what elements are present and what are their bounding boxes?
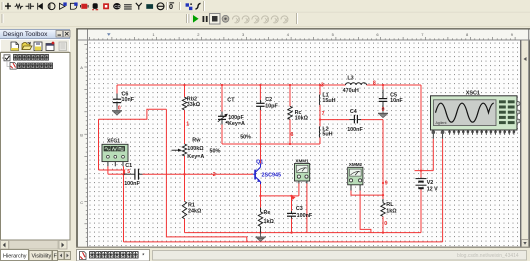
svg-text:50%: 50% <box>240 134 251 140</box>
svg-text:A: A <box>80 65 83 70</box>
svg-text:0: 0 <box>169 2 173 11</box>
svg-text:Hierarchy: Hierarchy <box>3 254 27 260</box>
svg-text:Key=A: Key=A <box>187 154 204 160</box>
svg-text:blog.csdn.net/weixin_43414: blog.csdn.net/weixin_43414 <box>457 253 519 259</box>
svg-text:Rw: Rw <box>192 138 201 144</box>
svg-text:5: 5 <box>127 169 130 175</box>
svg-text:RL: RL <box>386 202 394 208</box>
svg-text:0: 0 <box>118 106 121 112</box>
svg-text:CT: CT <box>227 98 235 104</box>
svg-text:3: 3 <box>321 82 324 88</box>
svg-text:10nF: 10nF <box>122 97 135 103</box>
svg-text:Agilent: Agilent <box>436 121 447 125</box>
svg-text:C3: C3 <box>296 206 303 212</box>
svg-text:10kΩ: 10kΩ <box>295 115 309 121</box>
svg-text:100nF: 100nF <box>297 213 313 219</box>
svg-text:100nF: 100nF <box>124 181 140 187</box>
svg-text:5uH: 5uH <box>322 131 332 137</box>
svg-text:6: 6 <box>291 132 294 138</box>
svg-text:100pF: 100pF <box>228 115 244 121</box>
svg-text:Re: Re <box>264 210 271 216</box>
svg-text:8: 8 <box>373 80 376 86</box>
svg-text:B: B <box>80 133 83 138</box>
svg-text:100kΩ: 100kΩ <box>187 146 204 152</box>
svg-text:7: 7 <box>322 111 325 117</box>
svg-text:*: * <box>141 254 146 260</box>
svg-text:C: C <box>80 200 83 205</box>
svg-text:Visibility: Visibility <box>32 254 52 260</box>
svg-text:50%: 50% <box>210 148 221 154</box>
svg-text:0: 0 <box>382 107 385 113</box>
svg-text:C4: C4 <box>350 109 357 115</box>
svg-text:24kΩ: 24kΩ <box>188 209 202 215</box>
svg-text:2: 2 <box>213 172 216 178</box>
svg-text:100nF: 100nF <box>347 127 363 133</box>
svg-text:L3: L3 <box>347 75 353 81</box>
svg-text:Q1: Q1 <box>256 159 263 165</box>
svg-text:XMM1: XMM1 <box>295 158 309 163</box>
svg-text:V2: V2 <box>427 180 434 186</box>
svg-text:15uH: 15uH <box>322 98 335 104</box>
svg-text:10pF: 10pF <box>265 103 278 109</box>
svg-text:XSC1: XSC1 <box>466 91 480 97</box>
svg-text:Key=A: Key=A <box>228 121 245 127</box>
svg-text:0: 0 <box>384 221 387 227</box>
svg-text:10nF: 10nF <box>390 98 403 104</box>
svg-text:C2: C2 <box>265 97 272 103</box>
svg-text:XFG1: XFG1 <box>107 138 120 144</box>
svg-text:1kΩ: 1kΩ <box>264 219 275 225</box>
svg-text:470uH: 470uH <box>343 88 359 94</box>
svg-text:1kΩ: 1kΩ <box>386 209 397 215</box>
svg-text:33kΩ: 33kΩ <box>187 102 201 108</box>
svg-text:9: 9 <box>385 180 388 186</box>
svg-text:R1: R1 <box>188 202 195 208</box>
svg-text:XMM2: XMM2 <box>349 162 363 167</box>
svg-text:CD: CD <box>114 4 120 9</box>
svg-text:12 V: 12 V <box>427 186 438 192</box>
svg-text:2SC945: 2SC945 <box>262 172 281 178</box>
svg-text:1: 1 <box>186 122 189 128</box>
